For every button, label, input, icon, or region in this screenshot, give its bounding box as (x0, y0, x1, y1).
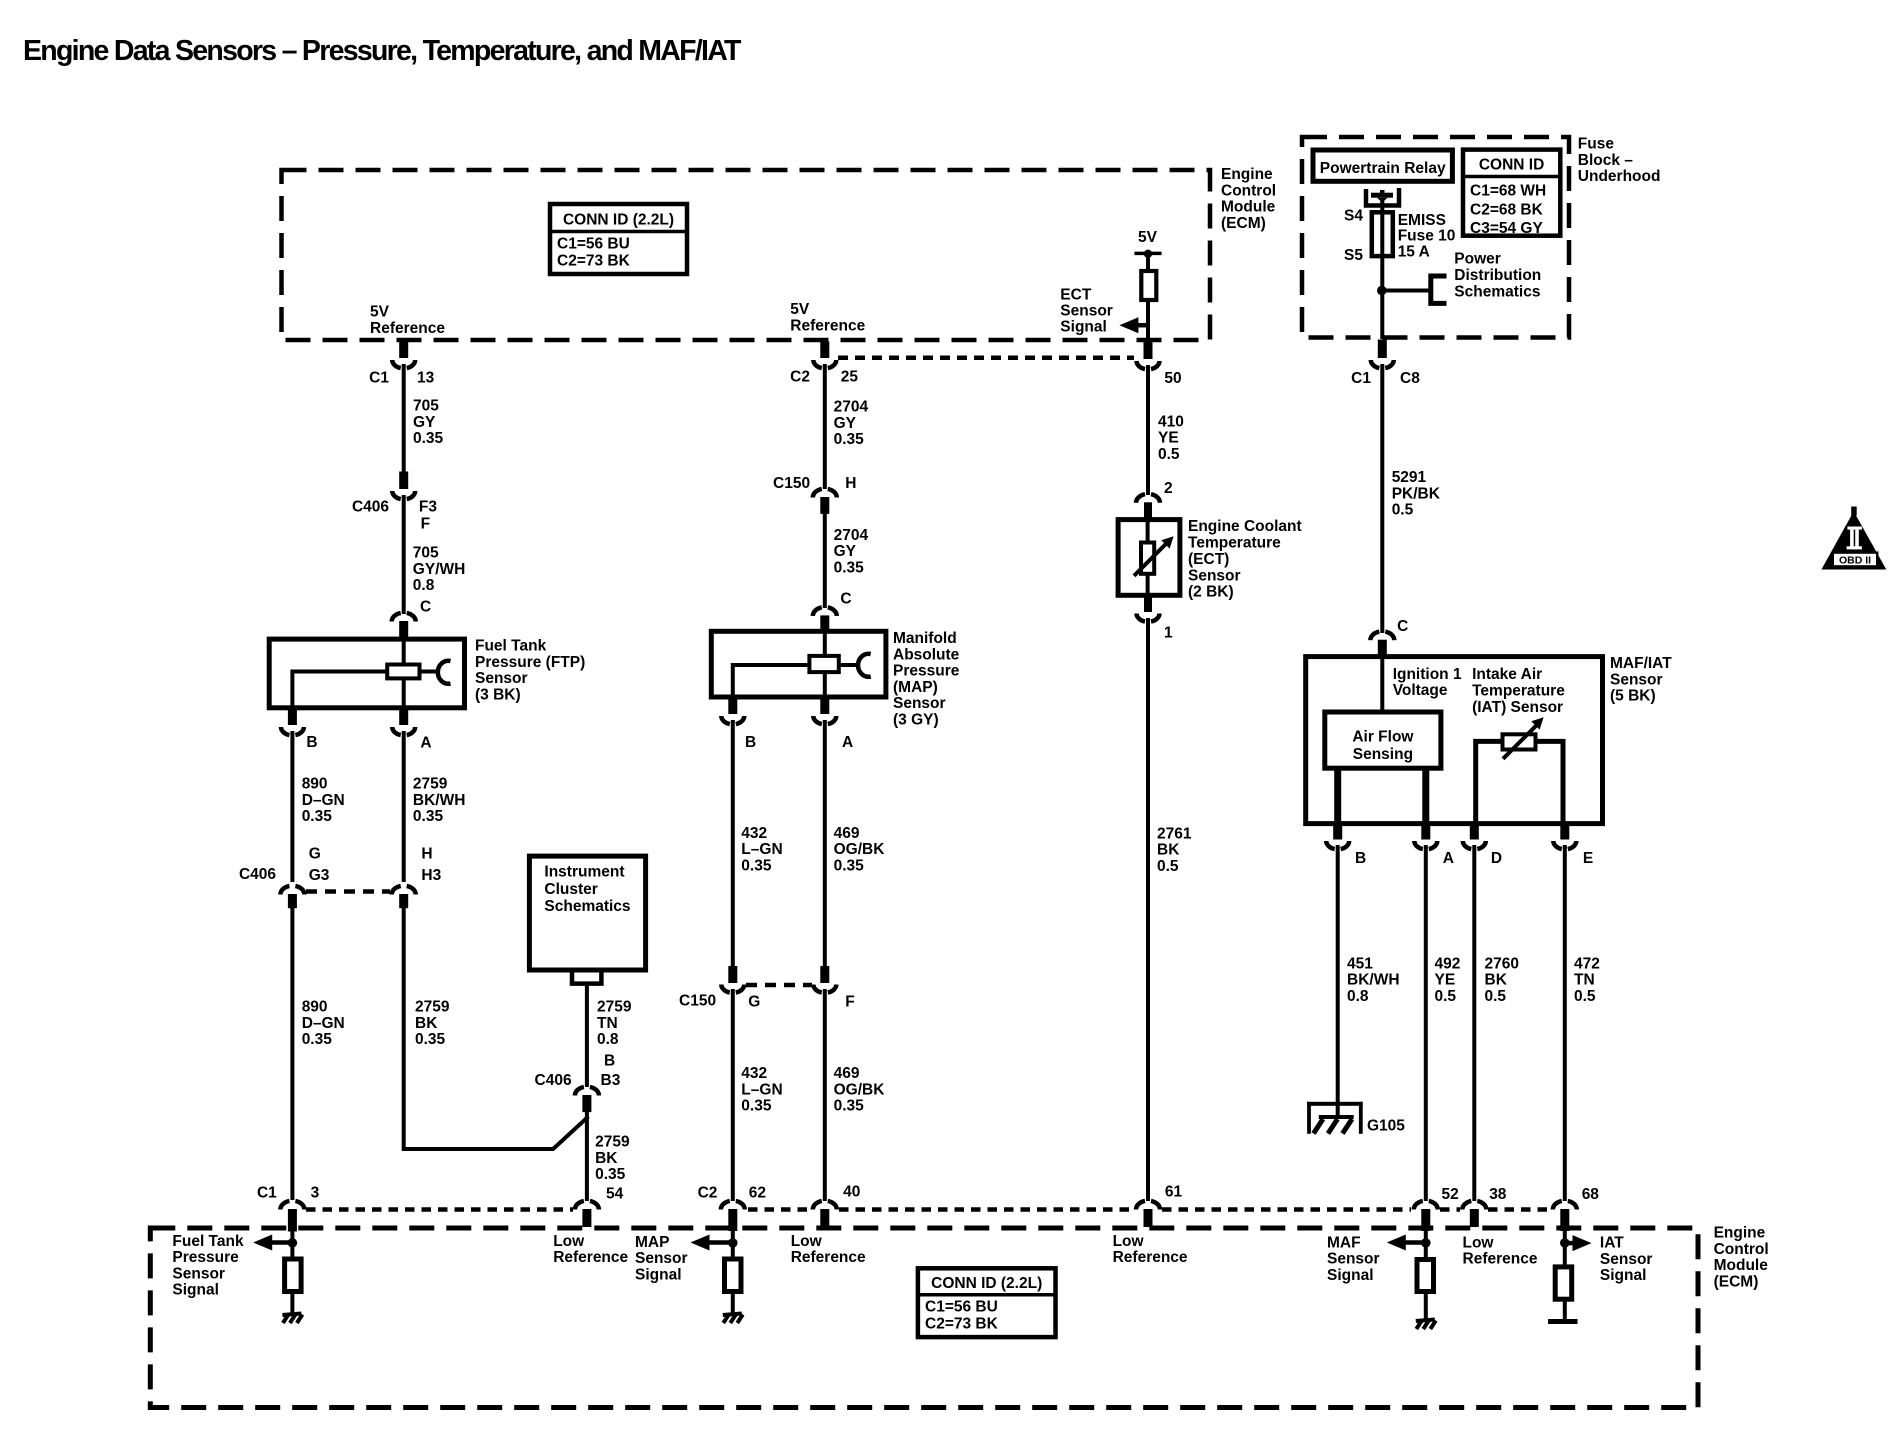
svg-text:0.5: 0.5 (1157, 858, 1179, 875)
svg-text:Reference: Reference (1463, 1251, 1538, 1268)
svg-text:(MAP): (MAP) (893, 679, 938, 696)
MAF pin E connector (1560, 824, 1569, 840)
svg-text:0.8: 0.8 (413, 577, 435, 594)
svg-text:Fuel Tank: Fuel Tank (475, 638, 547, 655)
svg-text:0.5: 0.5 (1574, 988, 1596, 1005)
svg-text:472: 472 (1574, 955, 1600, 972)
svg-text:705: 705 (413, 545, 439, 562)
ECT sensor box (1118, 520, 1180, 596)
svg-text:H3: H3 (421, 867, 441, 884)
svg-text:F3: F3 (419, 499, 437, 516)
Fuel Tank Pressure Sensor Signal arrow + label (290, 1231, 294, 1260)
MAP sensor box (711, 631, 886, 697)
svg-text:0.35: 0.35 (302, 808, 333, 825)
svg-text:OBD II: OBD II (1839, 555, 1871, 567)
svg-text:D–GN: D–GN (302, 1015, 345, 1032)
svg-text:50: 50 (1164, 370, 1181, 387)
svg-text:TN: TN (1574, 972, 1595, 989)
svg-text:Underhood: Underhood (1578, 168, 1661, 185)
svg-text:0.35: 0.35 (415, 1031, 446, 1048)
svg-text:C2=73 BK: C2=73 BK (925, 1316, 999, 1333)
svg-text:2761: 2761 (1157, 825, 1192, 842)
svg-text:Reference: Reference (790, 318, 865, 335)
svg-text:Manifold: Manifold (893, 630, 957, 647)
MAF pin B connector (1333, 824, 1342, 840)
svg-text:C406: C406 (535, 1072, 572, 1089)
svg-text:YE: YE (1158, 430, 1179, 447)
svg-text:Pressure: Pressure (172, 1249, 239, 1266)
wire 410 YE 0.5 (1146, 365, 1150, 495)
svg-text:Cluster: Cluster (544, 881, 597, 898)
svg-text:F: F (845, 994, 854, 1011)
MAP Sensor Signal arrow + label (731, 1231, 735, 1260)
svg-text:C2: C2 (790, 369, 810, 386)
svg-text:0.35: 0.35 (413, 430, 444, 447)
svg-text:Ignition 1: Ignition 1 (1393, 666, 1462, 683)
svg-text:0.35: 0.35 (741, 858, 772, 875)
svg-text:Signal: Signal (635, 1266, 682, 1283)
svg-text:Module: Module (1221, 199, 1276, 216)
svg-text:GY/WH: GY/WH (413, 561, 466, 578)
svg-text:BK: BK (1157, 842, 1180, 859)
svg-text:C2=73 BK: C2=73 BK (557, 253, 631, 270)
svg-text:Signal: Signal (1060, 318, 1107, 335)
svg-text:61: 61 (1165, 1184, 1183, 1201)
ECT Sensor Signal arrow (1119, 317, 1138, 333)
svg-text:B3: B3 (601, 1072, 621, 1089)
AFS output pins (1334, 768, 1341, 824)
svg-text:Signal: Signal (172, 1282, 219, 1299)
wire 2760 BK 0.5 (1472, 845, 1476, 1201)
svg-text:OG/BK: OG/BK (834, 1081, 886, 1098)
svg-text:C406: C406 (239, 866, 276, 883)
svg-text:Fuse: Fuse (1578, 136, 1615, 153)
wire 890 D-GN 0.35 (lower) (290, 908, 294, 1200)
svg-text:OG/BK: OG/BK (834, 841, 886, 858)
svg-text:CONN ID (2.2L): CONN ID (2.2L) (931, 1275, 1042, 1292)
connector C2 pin 25 (ECM 5V reference) (820, 342, 829, 359)
svg-text:Intake Air: Intake Air (1472, 666, 1542, 683)
IAT signal termination resistor (1555, 1267, 1572, 1299)
instrument cluster off-page bracket (572, 972, 601, 983)
svg-text:G3: G3 (309, 867, 330, 884)
svg-text:CONN ID (2.2L): CONN ID (2.2L) (563, 212, 674, 229)
svg-text:52: 52 (1442, 1186, 1459, 1203)
MAF pin D connector (1470, 824, 1479, 840)
svg-text:B: B (745, 734, 756, 751)
svg-text:C1=56 BU: C1=56 BU (557, 236, 630, 253)
svg-text:Engine Data Sensors – Pressure: Engine Data Sensors – Pressure, Temperat… (23, 35, 742, 67)
svg-text:432: 432 (741, 1065, 767, 1082)
svg-text:Distribution: Distribution (1454, 267, 1541, 284)
svg-text:L–GN: L–GN (741, 841, 782, 858)
wire 2759 TN 0.8 (585, 984, 589, 1087)
wire 432 L-GN 0.35 (upper) (731, 720, 735, 968)
svg-text:Block –: Block – (1578, 152, 1634, 169)
ground G105 (1307, 1102, 1311, 1134)
svg-text:ECT: ECT (1060, 286, 1092, 303)
FTP vent port crescent (438, 661, 451, 684)
wire 492 YE 0.5 (1424, 845, 1428, 1201)
svg-text:Reference: Reference (553, 1249, 628, 1266)
svg-text:25: 25 (841, 369, 859, 386)
svg-text:5V: 5V (370, 304, 390, 321)
svg-text:L–GN: L–GN (741, 1081, 782, 1098)
svg-text:62: 62 (749, 1184, 766, 1201)
svg-text:0.35: 0.35 (834, 431, 865, 448)
svg-text:0.5: 0.5 (1158, 446, 1180, 463)
svg-text:C1: C1 (257, 1184, 277, 1201)
svg-text:38: 38 (1489, 1186, 1507, 1203)
C1 bottom connector dashed tie line (pin3 to pin54) (306, 1207, 573, 1212)
svg-text:2760: 2760 (1485, 955, 1519, 972)
Air Flow Sensing box (1325, 712, 1441, 768)
svg-text:MAF: MAF (1327, 1234, 1361, 1251)
C150 connector dashed tie line (746, 983, 812, 988)
svg-text:Reference: Reference (1113, 1249, 1188, 1266)
svg-text:410: 410 (1158, 413, 1184, 430)
svg-text:15 A: 15 A (1398, 243, 1430, 260)
svg-text:C150: C150 (773, 475, 810, 492)
svg-text:0.35: 0.35 (834, 560, 865, 577)
svg-text:Low: Low (1463, 1235, 1495, 1252)
svg-text:E: E (1583, 850, 1593, 867)
svg-text:0.5: 0.5 (1485, 988, 1507, 1005)
svg-text:0.35: 0.35 (834, 858, 865, 875)
wire 451 BK/WH 0.8 (1336, 845, 1340, 1104)
svg-text:G: G (748, 994, 760, 1011)
svg-text:Sensor: Sensor (1600, 1251, 1653, 1268)
svg-text:C1=68 WH: C1=68 WH (1470, 183, 1546, 200)
svg-text:Pressure: Pressure (893, 663, 960, 680)
svg-text:D–GN: D–GN (302, 792, 345, 809)
power distribution branch wire (1382, 289, 1430, 293)
svg-text:Temperature: Temperature (1188, 535, 1281, 552)
svg-text:YE: YE (1435, 972, 1456, 989)
wire from fuse to junction (1380, 256, 1384, 339)
svg-text:2759: 2759 (415, 999, 450, 1016)
wire 2704 GY 0.35 (lower) (823, 513, 827, 608)
FTP sensor box (269, 639, 464, 708)
svg-text:(3 GY): (3 GY) (893, 712, 939, 729)
svg-text:13: 13 (417, 370, 435, 387)
svg-text:Absolute: Absolute (893, 646, 960, 663)
svg-text:C1: C1 (1351, 370, 1371, 387)
svg-text:0.5: 0.5 (1392, 502, 1414, 519)
svg-text:S5: S5 (1344, 247, 1363, 264)
svg-text:2759: 2759 (597, 999, 632, 1016)
svg-text:D: D (1491, 850, 1502, 867)
svg-text:0.35: 0.35 (302, 1031, 333, 1048)
svg-text:0.35: 0.35 (595, 1166, 626, 1183)
svg-text:469: 469 (834, 825, 860, 842)
svg-text:F: F (421, 516, 430, 533)
svg-text:0.8: 0.8 (1347, 988, 1369, 1005)
svg-text:C3=54 GY: C3=54 GY (1470, 220, 1543, 237)
wire ignition feed inside MAF (1380, 657, 1384, 713)
svg-text:IAT: IAT (1600, 1235, 1624, 1252)
svg-text:Air Flow: Air Flow (1352, 728, 1414, 745)
svg-text:A: A (420, 735, 431, 752)
svg-text:Engine: Engine (1221, 166, 1273, 183)
MAP signal termination resistor (725, 1259, 742, 1292)
wire 2761 BK 0.5 (1146, 618, 1150, 1201)
svg-text:Fuse 10: Fuse 10 (1398, 228, 1456, 245)
svg-text:Schematics: Schematics (544, 898, 630, 915)
svg-text:Sensor: Sensor (475, 670, 528, 687)
MAP pressure sensing element (823, 632, 827, 658)
svg-text:G: G (309, 845, 321, 862)
svg-text:B: B (1355, 850, 1366, 867)
svg-text:C: C (1397, 618, 1408, 635)
svg-text:A: A (842, 734, 853, 751)
svg-text:C2=68 BK: C2=68 BK (1470, 202, 1544, 219)
svg-text:TN: TN (597, 1015, 618, 1032)
connector C1 pin 13 (ECM 5V reference) (399, 342, 408, 359)
svg-text:Signal: Signal (1327, 1267, 1374, 1284)
svg-text:Low: Low (553, 1233, 585, 1250)
wire 2704 GY 0.35 (upper) (823, 364, 827, 489)
svg-text:2759: 2759 (413, 776, 448, 793)
svg-text:Sensor: Sensor (172, 1265, 225, 1282)
svg-text:B: B (306, 734, 317, 751)
svg-text:G105: G105 (1367, 1118, 1405, 1135)
svg-text:C: C (840, 591, 851, 608)
power distribution off-page bracket (1431, 276, 1447, 303)
svg-text:469: 469 (834, 1065, 860, 1082)
relay contact symbol (1366, 188, 1399, 206)
wire 432 L-GN 0.35 (lower) (731, 989, 735, 1201)
svg-text:Fuel Tank: Fuel Tank (172, 1233, 244, 1250)
connector C406 pin G/G3 (280, 886, 304, 895)
svg-text:Sensor: Sensor (1327, 1251, 1380, 1268)
ECM module box (top, dashed) (282, 170, 1211, 340)
Powertrain Relay box (1313, 150, 1452, 181)
svg-text:Voltage: Voltage (1393, 682, 1448, 699)
svg-text:Pressure (FTP): Pressure (FTP) (475, 654, 585, 671)
svg-text:C1=56 BU: C1=56 BU (925, 1299, 998, 1316)
Instrument Cluster Schematics box (529, 856, 645, 970)
svg-text:Control: Control (1221, 182, 1276, 199)
fuse block underhood box (dashed) (1302, 137, 1569, 338)
svg-text:Control: Control (1714, 1241, 1769, 1258)
svg-text:C8: C8 (1400, 370, 1420, 387)
svg-text:Power: Power (1454, 251, 1501, 268)
svg-text:Sensor: Sensor (893, 695, 946, 712)
svg-text:0.35: 0.35 (834, 1098, 865, 1115)
FTP pressure sensing element (402, 640, 406, 666)
wire 2759 BK 0.35 (to ECM pin 54) (585, 1112, 589, 1201)
svg-text:0.35: 0.35 (413, 808, 444, 825)
svg-text:492: 492 (1435, 955, 1461, 972)
svg-text:Powertrain Relay: Powertrain Relay (1320, 160, 1446, 177)
svg-text:68: 68 (1582, 1186, 1600, 1203)
connector C1/C8 (fuse block output) (1378, 340, 1387, 359)
MAF pin A connector (1421, 824, 1430, 840)
C2 connector dashed tie line (pin25 to pin50) (838, 355, 1134, 360)
MAF/IAT sensor box (1306, 657, 1603, 824)
svg-text:C1: C1 (369, 370, 389, 387)
svg-text:S4: S4 (1344, 208, 1363, 225)
svg-text:BK: BK (595, 1150, 618, 1167)
svg-text:(5 BK): (5 BK) (1610, 688, 1656, 705)
IAT thermistor element (1476, 741, 1501, 824)
svg-text:2759: 2759 (595, 1134, 630, 1151)
wire 890 D-GN 0.35 (upper) (290, 731, 294, 882)
svg-text:GY: GY (413, 414, 436, 431)
svg-text:C406: C406 (352, 499, 389, 516)
svg-text:MAP: MAP (635, 1234, 669, 1251)
svg-text:Reference: Reference (370, 320, 445, 337)
svg-text:(ECM): (ECM) (1714, 1273, 1759, 1290)
svg-text:Sensor: Sensor (1188, 567, 1241, 584)
CONN ID table (fuse block) (1463, 150, 1560, 236)
MAP pin B connector (728, 697, 737, 714)
wire 705 GY 0.35 (402, 364, 406, 473)
C406 connector dashed tie line (306, 889, 390, 894)
svg-text:C150: C150 (679, 993, 716, 1010)
svg-text:(2 BK): (2 BK) (1188, 584, 1234, 601)
svg-text:GY: GY (834, 543, 857, 560)
ECT thermistor element (1146, 520, 1150, 544)
svg-text:(IAT) Sensor: (IAT) Sensor (1472, 699, 1563, 716)
svg-text:Module: Module (1714, 1257, 1769, 1274)
IAT signal ground bar (1548, 1319, 1577, 1324)
svg-text:890: 890 (302, 776, 328, 793)
svg-text:1: 1 (1164, 624, 1173, 641)
svg-text:2: 2 (1164, 480, 1173, 497)
ECT sensor pin 1 connector (1144, 595, 1152, 612)
svg-text:0.35: 0.35 (741, 1098, 772, 1115)
C2 bottom connector dashed tie line (pin62..pin68) (748, 1207, 811, 1212)
MAP vent port crescent (858, 654, 871, 677)
svg-text:A: A (1443, 850, 1454, 867)
MAF Sensor Signal arrow + label (1424, 1231, 1428, 1260)
FTP signal termination resistor (285, 1259, 302, 1292)
wire 469 OG/BK 0.35 (lower) (823, 989, 827, 1201)
connector C150 pin F (820, 966, 829, 983)
svg-text:432: 432 (741, 825, 767, 842)
svg-text:C2: C2 (698, 1184, 718, 1201)
svg-text:5V: 5V (1138, 229, 1158, 246)
svg-text:H: H (845, 475, 856, 492)
svg-text:BK/WH: BK/WH (413, 792, 466, 809)
svg-text:0.5: 0.5 (1435, 988, 1457, 1005)
svg-text:Sensor: Sensor (1610, 671, 1663, 688)
wire 2759 BK 0.35 (from FTP A to junction) (404, 908, 589, 1149)
svg-text:CONN ID: CONN ID (1479, 157, 1544, 174)
svg-text:Reference: Reference (791, 1249, 866, 1266)
svg-text:54: 54 (606, 1185, 624, 1202)
CONN ID (2.2L) table (bottom ECM) (918, 1268, 1056, 1337)
ECM pin 50 connector (1144, 341, 1153, 359)
connector C406 pin F3/F (399, 472, 408, 490)
CONN ID (2.2L) table (top ECM) (550, 204, 687, 274)
OBD II symbol (1851, 507, 1857, 516)
IAT Sensor Signal arrow + label (1563, 1231, 1567, 1268)
svg-text:40: 40 (843, 1184, 860, 1201)
svg-text:Temperature: Temperature (1472, 682, 1565, 699)
svg-text:890: 890 (302, 999, 328, 1016)
MAF signal ground (chassis) (1416, 1320, 1435, 1322)
FTP signal ground (chassis) (282, 1314, 301, 1316)
svg-text:BK: BK (1485, 972, 1508, 989)
junction dot S-point (1377, 286, 1387, 296)
svg-text:(ECT): (ECT) (1188, 551, 1229, 568)
svg-text:PK/BK: PK/BK (1392, 485, 1441, 502)
connector C406 pin H/H3 (392, 886, 416, 895)
svg-text:H: H (421, 845, 432, 862)
svg-text:B: B (604, 1053, 615, 1070)
svg-text:3: 3 (311, 1184, 320, 1201)
svg-text:5V: 5V (790, 301, 810, 318)
svg-text:MAF/IAT: MAF/IAT (1610, 655, 1672, 672)
svg-text:705: 705 (413, 398, 439, 415)
ECM module box (bottom, dashed) (150, 1228, 1698, 1408)
FTP pin A connector (399, 708, 408, 725)
FTP pin B connector (288, 708, 297, 725)
svg-text:BK: BK (415, 1015, 438, 1032)
svg-text:Sensing: Sensing (1353, 746, 1413, 763)
svg-text:2704: 2704 (834, 399, 869, 416)
svg-text:Engine Coolant: Engine Coolant (1188, 518, 1302, 535)
svg-text:(ECM): (ECM) (1221, 215, 1266, 232)
svg-text:451: 451 (1347, 955, 1373, 972)
svg-text:C: C (420, 599, 431, 616)
connector C150 pin G (728, 966, 737, 983)
svg-text:GY: GY (834, 415, 857, 432)
svg-text:BK/WH: BK/WH (1347, 972, 1400, 989)
wire 2759 BK/WH 0.35 (402, 731, 406, 882)
svg-text:(3 BK): (3 BK) (475, 686, 521, 703)
svg-text:0.8: 0.8 (597, 1031, 619, 1048)
wire 705 GY/WH 0.8 (402, 495, 406, 614)
MAP signal ground (chassis) (723, 1314, 742, 1316)
svg-text:Instrument: Instrument (544, 864, 624, 881)
MAF signal termination resistor (1417, 1260, 1434, 1292)
svg-text:5291: 5291 (1392, 469, 1427, 486)
svg-text:2704: 2704 (834, 527, 869, 544)
svg-text:Low: Low (791, 1233, 823, 1250)
svg-text:Low: Low (1113, 1233, 1145, 1250)
wire 5291 PK/BK 0.5 (1380, 364, 1384, 633)
wire 469 OG/BK 0.35 (upper) (823, 720, 827, 968)
svg-text:Schematics: Schematics (1454, 283, 1540, 300)
ECT pullup resistor (in ECM) (1141, 271, 1156, 300)
svg-text:Engine: Engine (1714, 1225, 1766, 1242)
svg-text:Sensor: Sensor (635, 1250, 688, 1267)
MAP pin A connector (820, 697, 829, 714)
svg-text:Sensor: Sensor (1060, 302, 1113, 319)
svg-text:EMISS: EMISS (1398, 212, 1446, 229)
svg-text:Signal: Signal (1600, 1267, 1647, 1284)
wire 472 TN 0.5 (1563, 845, 1567, 1201)
